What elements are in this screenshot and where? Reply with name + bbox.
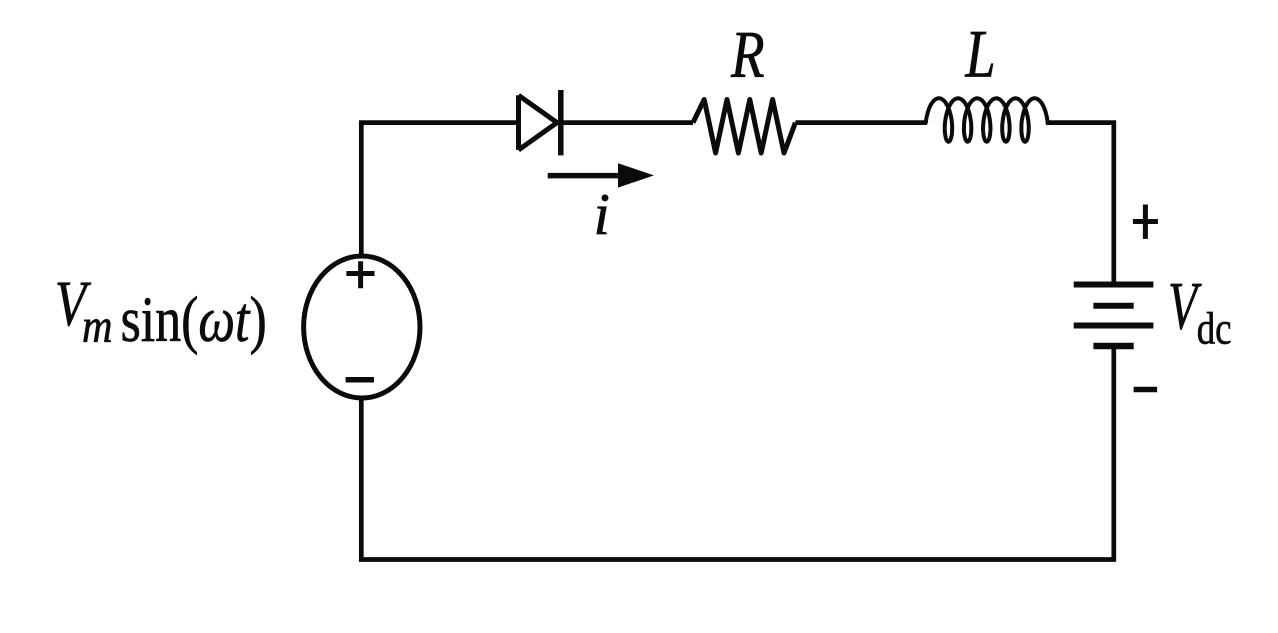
svg-text:m: m — [82, 300, 113, 353]
svg-text:sin(ωt): sin(ωt) — [121, 284, 267, 356]
battery Vdc plate 1 (long, +) — [1074, 282, 1154, 288]
battery Vdc plate 2 (short) — [1093, 303, 1133, 309]
wire top-right: inductor to battery plus plate — [1046, 123, 1114, 285]
battery minus label — [1134, 387, 1158, 393]
source plus sign — [346, 261, 374, 288]
current arrow i shaft — [548, 173, 622, 179]
inductor L coil — [926, 98, 1048, 141]
diode D1 cathode bar — [558, 90, 564, 155]
svg-text:i: i — [594, 181, 610, 247]
battery Vdc plate 4 (short, -) — [1093, 343, 1133, 350]
wire bottom loop: source bottom, bottom rail, up to battery minus plate — [361, 346, 1114, 560]
svg-text:L: L — [965, 17, 996, 92]
battery plus label — [1133, 205, 1158, 239]
battery Vdc plate 3 (long) — [1074, 323, 1154, 329]
source minus sign — [346, 377, 374, 383]
svg-text:R: R — [730, 17, 764, 91]
AC source V_m ellipse — [304, 256, 420, 398]
resistor R zigzag — [693, 100, 795, 154]
wire: resistor to inductor — [795, 120, 927, 125]
diode D1 triangle — [519, 95, 558, 150]
current arrow i head — [618, 163, 654, 187]
wire top-left: source to diode anode — [361, 123, 518, 256]
wire: diode cathode to resistor — [561, 120, 693, 125]
svg-text:dc: dc — [1197, 303, 1232, 353]
